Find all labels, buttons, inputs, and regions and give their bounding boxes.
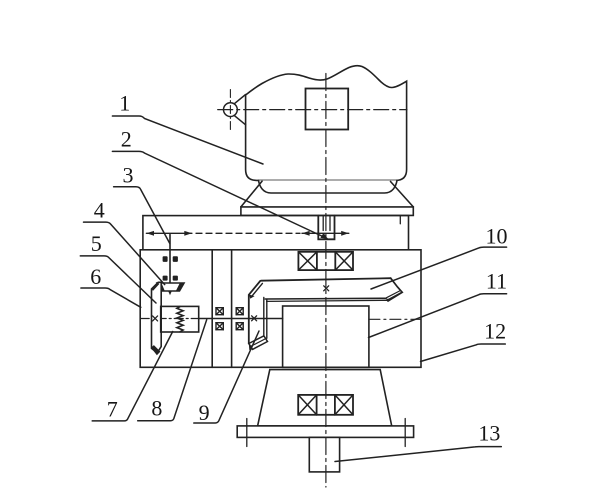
shifter fork (part 9) (249, 281, 260, 344)
plate right folded tip (388, 278, 402, 301)
svg-text:13: 13 (478, 420, 500, 445)
x marker on lever (153, 316, 158, 321)
trapezoid left shoulder (241, 181, 262, 207)
motor horizontal centerline (218, 109, 407, 111)
pivot bracket upper line (234, 95, 245, 104)
spring (part 7) (177, 307, 183, 332)
lower spindle bearing block (298, 395, 353, 415)
slot under motor (318, 216, 334, 240)
guide pads 2x2 (163, 256, 168, 262)
svg-text:8: 8 (151, 396, 162, 421)
spindle horizontal centerline mid (199, 318, 283, 320)
svg-text:6: 6 (90, 264, 101, 289)
svg-text:1: 1 (119, 91, 130, 116)
small bearing box 4 (236, 323, 243, 330)
svg-text:2: 2 (121, 127, 132, 152)
spindle rect (part 11) (283, 306, 369, 367)
small bearing box 3 (236, 308, 243, 315)
screw stem (part 2) (323, 216, 330, 231)
motor base trapezoid band (241, 207, 413, 216)
motor bottom pan (259, 180, 398, 193)
spindle horizontal centerline left (140, 318, 199, 320)
lever bottom wedge (151, 345, 161, 355)
spring housing box (161, 306, 199, 332)
terminal box square (306, 89, 349, 130)
spindle horizontal centerline right (369, 318, 421, 320)
flange bolt tick right (404, 419, 406, 447)
motor body (part 1) (246, 66, 407, 181)
fork foot slab (249, 336, 268, 350)
pivot bracket lower line (234, 115, 245, 124)
main housing (140, 250, 421, 367)
svg-text:10: 10 (486, 224, 508, 249)
trapezoid right shoulder (391, 182, 414, 207)
packing nut (part 4) (157, 283, 184, 291)
svg-text:12: 12 (484, 319, 506, 344)
svg-text:3: 3 (123, 162, 134, 187)
partition wall left (211, 250, 213, 367)
partition wall right (231, 250, 233, 367)
upper spindle bearing block (298, 252, 353, 270)
pivot circle (224, 103, 238, 117)
x marker on centerline in plate (324, 286, 329, 291)
small bearing box 2 (216, 323, 223, 330)
adjusting rod (part 3) (169, 235, 171, 292)
small bearing box 1 (216, 308, 223, 315)
pedestal trapezoid (258, 370, 392, 426)
travel dashed line (196, 232, 300, 234)
rod tip arrow (168, 290, 172, 295)
x marker on fork (252, 316, 257, 321)
output shaft (part 13) (309, 437, 339, 472)
flange bolt tick left (246, 419, 248, 447)
fork top wedge (249, 295, 254, 299)
vertical centerline (325, 74, 327, 488)
lever top wedge (151, 282, 159, 291)
travel double arrow right (302, 232, 349, 234)
circle vertical centerline (229, 90, 231, 131)
band step line (399, 216, 401, 224)
svg-text:9: 9 (199, 400, 210, 425)
flange bar (237, 426, 413, 438)
clutch plate (part 10) (261, 278, 391, 281)
svg-text:4: 4 (94, 197, 105, 222)
svg-text:5: 5 (91, 231, 102, 256)
lever (part 5) (152, 282, 162, 353)
svg-text:7: 7 (107, 397, 118, 422)
travel double arrow left (146, 232, 192, 234)
svg-text:11: 11 (486, 269, 507, 294)
slide table band (143, 216, 409, 250)
